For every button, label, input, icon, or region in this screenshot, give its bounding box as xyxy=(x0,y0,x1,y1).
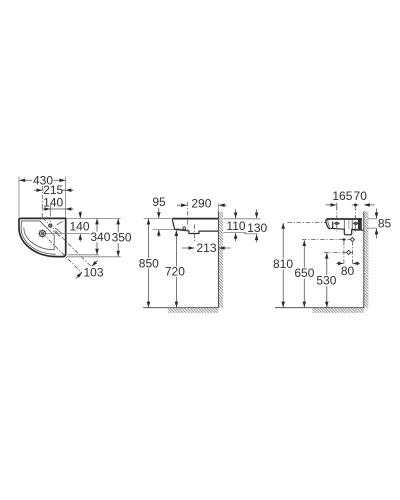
svg-text:110: 110 xyxy=(226,219,245,233)
basin side bottom with drain stub xyxy=(330,228,358,235)
extension line front-bottom y229.4 xyxy=(153,228,175,230)
svg-text:85: 85 xyxy=(378,216,392,230)
diagonal centerline B through drain xyxy=(42,233,82,273)
fixing hole left xyxy=(335,222,340,224)
dimension 85 xyxy=(375,209,392,239)
floor line middle xyxy=(143,307,218,309)
centerline axis 215 xyxy=(41,186,43,219)
vertical axis dash-dot x352.4 xyxy=(351,241,353,263)
svg-text:165: 165 xyxy=(332,189,352,203)
svg-text:810: 810 xyxy=(273,257,293,271)
wall section bar xyxy=(358,220,362,231)
dimension 165 xyxy=(326,189,353,209)
wall hatch middle xyxy=(218,212,223,308)
diagonal centerline A through tap hole xyxy=(42,218,91,267)
dimension 720 xyxy=(165,230,185,307)
svg-text:140: 140 xyxy=(43,196,63,210)
drain height axis dash-dot y239.6 xyxy=(302,239,354,241)
basin side front inner line xyxy=(328,220,330,228)
dimension 350 xyxy=(112,219,132,257)
extension line 85 bottom xyxy=(367,227,378,229)
basin interior vertical line 2 xyxy=(343,220,345,229)
basin bottom edge at wall xyxy=(352,229,364,231)
dimension 110 xyxy=(226,209,245,241)
svg-text:80: 80 xyxy=(341,264,355,278)
tap centerline middle xyxy=(187,202,189,227)
svg-text:530: 530 xyxy=(316,274,336,288)
extension line right of wall y218.8 xyxy=(223,218,260,220)
svg-text:720: 720 xyxy=(165,265,185,279)
basin inner rim line (top) xyxy=(21,220,39,222)
dimension 340 xyxy=(90,219,110,255)
vertical axis dash-dot x343.9 xyxy=(343,241,345,263)
tap hole xyxy=(49,224,52,227)
extension line y233.8 xyxy=(244,233,258,235)
svg-text:140: 140 xyxy=(69,219,89,233)
svg-text:650: 650 xyxy=(294,266,314,280)
basin inner bottom line xyxy=(177,229,189,231)
extension line y232.5 xyxy=(223,232,246,234)
dimension 80 xyxy=(336,262,360,279)
svg-text:95: 95 xyxy=(152,195,166,209)
dimension 215 xyxy=(34,183,74,197)
svg-text:350: 350 xyxy=(112,231,132,245)
deck wave curve 1 xyxy=(55,228,62,234)
dimension 810 xyxy=(273,223,293,307)
dimension 530 xyxy=(316,253,336,308)
overflow hole circle xyxy=(183,227,186,230)
wall hatch right xyxy=(364,211,369,307)
supply axis dash-dot y252.4 xyxy=(324,251,353,253)
dimension 290 xyxy=(177,197,227,211)
floor line right xyxy=(275,307,364,309)
fixing hole right xyxy=(354,222,359,224)
svg-text:290: 290 xyxy=(191,197,211,211)
dimension 430 xyxy=(19,173,65,187)
extension line left x19 xyxy=(18,177,20,217)
wall face line middle xyxy=(217,212,219,308)
open diamond on drain axis xyxy=(350,237,354,241)
bowl outline with chamfer xyxy=(24,221,54,250)
height axis dash-dot xyxy=(288,222,326,224)
centerline axis 140 tap xyxy=(49,213,51,222)
basin top-view outer outline xyxy=(19,218,66,256)
basin profile front and bottom with drain notch xyxy=(172,219,218,233)
wall face line right xyxy=(363,211,365,307)
svg-text:70: 70 xyxy=(354,189,368,203)
extension line top-left y218.5 xyxy=(144,218,172,220)
open diamond on supply axis xyxy=(347,250,351,254)
dimension 70 shared terminator xyxy=(352,189,367,206)
waste drain rosette xyxy=(38,230,46,238)
filled dot on drain axis xyxy=(343,238,346,241)
extension line top-right y218.4 xyxy=(67,217,121,219)
basin interior vertical line 4 xyxy=(351,220,353,229)
basin side front edge xyxy=(326,219,330,229)
svg-text:213: 213 xyxy=(196,241,216,255)
dimension 103 diagonal xyxy=(76,260,104,279)
basin inner rim arc xyxy=(21,224,56,254)
dimension 95 xyxy=(152,195,166,237)
basin inner rim line (left) xyxy=(20,221,22,225)
basin interior vertical line 3 xyxy=(348,220,350,229)
floor hatch middle xyxy=(168,308,219,313)
deck wave curve 2 xyxy=(53,231,59,236)
dimension 140 right xyxy=(69,211,89,241)
dimension 850 xyxy=(139,219,159,308)
svg-text:340: 340 xyxy=(90,230,110,244)
basin profile top edge xyxy=(172,218,218,220)
extension line bottom y254.8 xyxy=(68,254,99,256)
dimension 650 xyxy=(294,240,314,307)
dimension 140 top xyxy=(42,196,74,213)
svg-text:850: 850 xyxy=(139,256,159,270)
dimension 130 xyxy=(247,209,267,242)
dimension 213 xyxy=(182,241,231,255)
svg-text:130: 130 xyxy=(247,221,267,235)
extension line above wall x218.6 xyxy=(218,203,220,212)
floor hatch right xyxy=(312,308,363,313)
basin side top edge xyxy=(327,218,362,220)
extension line drain level y233.6 xyxy=(46,233,90,235)
fixing hole axis left xyxy=(336,206,338,231)
basin interior vertical line 1 xyxy=(332,222,334,229)
drain centerline middle xyxy=(193,225,195,244)
extension line bottom y256.8 xyxy=(67,256,121,258)
deck inner rim chamfer line xyxy=(57,221,63,225)
extension line 85 top xyxy=(368,218,377,220)
extension line right x65.4 xyxy=(65,177,67,217)
svg-text:103: 103 xyxy=(83,265,103,279)
fixing hole axis right xyxy=(354,206,356,231)
dimension 70 wall arrow xyxy=(364,203,375,207)
